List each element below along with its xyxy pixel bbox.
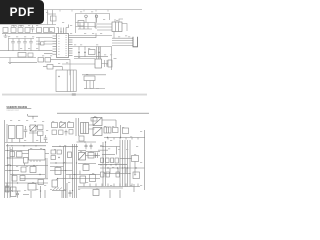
- resistor R522: [52, 130, 57, 135]
- inductor L101: [11, 25, 17, 26]
- junction dot cluster: [58, 157, 59, 158]
- bridge diagonal: [30, 125, 36, 131]
- capacitor C102: [11, 39, 15, 51]
- shield box main block: [56, 70, 76, 92]
- wire row y165.5: [5, 165, 48, 167]
- resistor R505: [113, 128, 119, 133]
- wire R514 to R515 vertical: [134, 162, 136, 176]
- wire center row y146.3: [52, 145, 78, 147]
- PC502 diagonal: [93, 128, 102, 136]
- switching transformer T502: [81, 123, 89, 134]
- wire rail y154.4: [102, 153, 115, 155]
- capacitor C511: [6, 183, 9, 191]
- wire AC input top: [6, 124, 8, 142]
- value labels top schematic: [8, 12, 130, 75]
- transistor Q505: [93, 190, 99, 196]
- wire left border: [4, 120, 6, 198]
- resistor R103: [18, 28, 23, 33]
- junction dot C110: [98, 51, 100, 53]
- capacitor C106 polarized: [85, 15, 88, 18]
- resistor R521: [6, 186, 10, 192]
- wire center vertical pair: [64, 146, 66, 198]
- PDF badge overlay: [0, 0, 44, 24]
- resistor R525: [106, 172, 110, 177]
- wire left vertical bus: [7, 144, 9, 198]
- junction dots on y168: [107, 167, 108, 168]
- capacitor C108: [78, 47, 80, 58]
- ground hatch left: [53, 188, 62, 191]
- transistor Q504: [80, 176, 86, 183]
- resistor R111: [47, 65, 53, 70]
- diode D503: [68, 152, 72, 158]
- line filter LF501: [9, 126, 16, 139]
- value labels bottom schematic: [8, 116, 142, 191]
- diode D506: [17, 152, 23, 158]
- resistor R513: [115, 158, 119, 163]
- resistor R104: [25, 28, 30, 33]
- resistor R110: [45, 58, 51, 63]
- small part near title: [91, 118, 97, 122]
- wire lower mid bus: [74, 56, 108, 58]
- transformer T501: [17, 126, 24, 139]
- resistor R503: [52, 123, 58, 128]
- node label 21: [48, 13, 57, 15]
- wire left L-branch: [10, 58, 37, 63]
- wire lower-right row: [74, 58, 95, 60]
- small parts right: [96, 153, 98, 159]
- wire rows center y163-170: [50, 163, 73, 171]
- capacitor C512: [85, 144, 88, 150]
- junction dot center row: [59, 146, 60, 147]
- resistor R107: [50, 28, 55, 33]
- wire vertical Q501 down: [23, 163, 25, 166]
- wire lower row y145.8: [6, 145, 46, 147]
- resistor R520: [79, 136, 84, 141]
- connector CN501: [11, 187, 17, 197]
- tick marks on bus: [108, 138, 138, 140]
- wire R111 row: [43, 67, 63, 70]
- wire right row y173.5: [104, 173, 130, 175]
- wire bottom of input stage: [5, 141, 48, 143]
- wire U101 top feed: [57, 25, 69, 28]
- wire bus down from U102: [113, 32, 115, 39]
- capacitor C501: [24, 126, 28, 138]
- wire long mid bus: [73, 47, 112, 59]
- capacitor C502: [44, 135, 48, 142]
- junction dot C108: [78, 51, 80, 53]
- wire right section verticals: [103, 142, 106, 186]
- inductor L102: [18, 25, 24, 26]
- wire stems of C106 C107: [86, 18, 97, 23]
- transistor Q502: [30, 167, 36, 173]
- comb ticks on bottom bus: [84, 184, 138, 187]
- IC U101 main microcontroller: [57, 34, 69, 58]
- junction dots bottom schematic: [7, 141, 131, 191]
- wire left row lower bus: [2, 33, 57, 35]
- wire vertical drop from top bus: [47, 10, 49, 25]
- wire long mid-right bus: [104, 137, 145, 139]
- junction dot C109: [84, 51, 86, 53]
- resistor R508: [12, 176, 17, 182]
- junction dots left bus: [9, 170, 10, 171]
- wire verticals above U101: [59, 28, 67, 34]
- wire below crystal: [0, 57, 36, 59]
- wire row y142: [77, 141, 97, 143]
- resistor R519: [51, 156, 56, 160]
- wire center vertical trio: [73, 144, 77, 198]
- wire to right of R110: [51, 60, 71, 75]
- resistor R516: [21, 167, 26, 172]
- wire into IC block: [89, 125, 95, 129]
- diode D511: [38, 180, 44, 185]
- wire right of U102: [122, 24, 127, 32]
- wire upper bus y64: [62, 63, 95, 65]
- diode D502: [60, 123, 66, 128]
- resistor R502: [38, 131, 44, 136]
- wire right row y168: [100, 167, 145, 169]
- diode D507: [28, 184, 36, 191]
- capacitor C107 polarized: [95, 15, 98, 18]
- wire vertical pair mid: [46, 158, 48, 178]
- junction dot y174: [39, 174, 40, 175]
- wire vertical x41: [40, 186, 42, 198]
- ground stub: [8, 62, 12, 63]
- resistor R108: [89, 50, 96, 55]
- capacitor C103: [17, 39, 21, 51]
- top bus junction ticks: [60, 10, 108, 12]
- wire long row y178: [58, 178, 100, 180]
- page background: [0, 0, 149, 198]
- wire drop x120: [120, 125, 122, 137]
- transistor Q507: [83, 165, 89, 171]
- resistor R112: [84, 76, 95, 81]
- wire U103 top pins: [97, 47, 101, 60]
- wire right row y158.5: [120, 158, 132, 160]
- wire left vertical bus: [8, 38, 10, 51]
- wire rail y164.7: [98, 164, 127, 166]
- wire row y150: [5, 150, 29, 152]
- resistor R517: [51, 150, 56, 154]
- diode D504: [52, 180, 58, 187]
- capacitor C513: [90, 144, 93, 150]
- PDF badge label: [0, 0, 44, 24]
- resistor network RN501: [104, 127, 111, 133]
- resistor R507: [10, 152, 15, 157]
- wire row y191: [5, 190, 21, 192]
- transistor Q506: [88, 153, 94, 159]
- resistor R106: [44, 28, 49, 33]
- U504 inner pins: [31, 160, 40, 162]
- wire cap row top: [9, 38, 35, 40]
- U102 internal dividers: [115, 22, 118, 32]
- wire row y153 to IC: [22, 153, 49, 155]
- capacitor C505: [69, 190, 72, 197]
- wire long bottom bus: [78, 187, 140, 189]
- capacitor C104: [23, 39, 27, 51]
- wire right bus B from U101 pin: [73, 33, 97, 38]
- junction dot y165: [10, 165, 11, 166]
- wire drops below R112: [87, 81, 94, 89]
- wire bottom row: [82, 74, 106, 76]
- wire bottom row y190.5: [52, 190, 66, 192]
- resistor R524: [101, 172, 105, 177]
- winding columns inside block: [67, 70, 73, 92]
- T502 core bars: [83, 123, 86, 134]
- power block enclosure: [76, 14, 110, 34]
- capacitor C105: [29, 39, 33, 51]
- title underline: [7, 107, 32, 110]
- capacitor C110: [98, 47, 100, 58]
- wire left verticals extra: [10, 147, 13, 198]
- junction dot in block: [58, 76, 59, 77]
- PC501 diagonal: [93, 118, 102, 126]
- wire feed rows into U101: [36, 37, 53, 53]
- fuse F501 stub: [28, 114, 39, 119]
- resistor R101: [51, 16, 57, 21]
- wire bottom right verticals: [110, 184, 134, 198]
- capacitor C514: [65, 130, 68, 136]
- junction dots row 145.8: [11, 145, 12, 146]
- junction dot G1 out: [38, 43, 39, 44]
- wire stubs below input boxes: [12, 131, 40, 142]
- transistor Q101: [78, 21, 84, 27]
- resistor R100: [3, 28, 8, 33]
- transistor Q503: [55, 168, 61, 175]
- wire row y174: [10, 174, 45, 176]
- resistor R102: [11, 28, 16, 33]
- pin stubs U101 right: [69, 36, 73, 56]
- pin number row bottom of top schematic: [84, 88, 105, 90]
- junction dots on bus: [107, 137, 108, 138]
- diode D508: [69, 130, 73, 135]
- wire rows right of U502: [86, 152, 101, 156]
- resistor R509: [20, 176, 25, 181]
- resistor R526: [116, 172, 120, 177]
- page number mark: [72, 93, 76, 95]
- wire mesh verticals: [80, 14, 96, 30]
- IC U502 PWM controller: [79, 153, 86, 161]
- wire ground bus: [0, 50, 53, 52]
- wire row y170: [5, 170, 19, 172]
- wire left row upper bus: [0, 24, 56, 26]
- wire inside power block: [76, 23, 96, 29]
- capacitor C109: [84, 47, 86, 58]
- wire right vertical extension: [111, 58, 113, 70]
- wire top right feed: [102, 120, 116, 127]
- wire drops from y174.5: [70, 171, 80, 179]
- IC U504 error amp: [29, 150, 46, 161]
- diode block D101: [108, 60, 112, 67]
- IC U102 interface: [112, 22, 122, 32]
- diode D510: [111, 158, 114, 163]
- resistor R515: [133, 172, 140, 179]
- resistor R105: [37, 28, 42, 33]
- wire row y178.8: [20, 178, 48, 180]
- wire bottom stubs: [23, 190, 45, 198]
- wire bottom center verticals: [62, 183, 67, 198]
- crystal X101: [18, 53, 26, 58]
- junction dot y158: [7, 157, 8, 158]
- wire mesh row: [76, 27, 97, 30]
- wire right border drop: [144, 130, 146, 190]
- wire power block lower: [84, 26, 92, 29]
- resistor R512: [90, 175, 96, 182]
- U101 inner pin number marks: [58, 36, 67, 56]
- connector CN101 ribbon wires: [112, 38, 133, 45]
- resonator X102: [28, 53, 33, 57]
- capacitor C101: [31, 25, 35, 33]
- wire row y163.5: [78, 163, 96, 165]
- bridge rectifier D501: [30, 125, 36, 131]
- diode D505: [101, 158, 104, 163]
- resistor R504: [68, 123, 74, 128]
- pin stubs U101 left: [53, 36, 57, 54]
- resistor R506: [123, 128, 129, 134]
- capacitor C504: [16, 191, 19, 198]
- resistor R501: [38, 125, 44, 130]
- diode D509: [106, 158, 110, 163]
- wire small 4 label stub: [114, 58, 117, 60]
- wire bottom rail: [84, 88, 102, 90]
- separator band: [2, 94, 147, 96]
- wire top border of figure: [57, 112, 149, 114]
- wire top supply bus: [2, 9, 142, 11]
- wire row y183: [5, 182, 48, 184]
- transistor Q501: [24, 158, 29, 164]
- wire rect row bus: [29, 127, 38, 134]
- IC block PC501: [93, 118, 102, 126]
- wire row y158: [8, 157, 24, 159]
- resistor R109: [38, 58, 44, 63]
- wire y174.5 center: [66, 174, 100, 176]
- junction dot r1: [55, 162, 56, 163]
- varistor RV501: [60, 123, 66, 128]
- wire right bus A from U101 pin: [73, 35, 113, 37]
- wire row y150 left: [78, 149, 86, 151]
- logic gate G1: [41, 42, 45, 45]
- IC U103: [95, 59, 102, 68]
- wire verticals mid top: [76, 118, 79, 136]
- wire vertical corridor: [120, 140, 130, 187]
- resistor R514: [132, 156, 139, 162]
- ground symbol left: [4, 34, 8, 38]
- capacitor C507: [110, 168, 126, 174]
- pin stubs U102 left: [97, 24, 112, 30]
- wire right of U103: [102, 60, 109, 67]
- svg-text:POWER SUPPLY CIRCUIT: POWER SUPPLY CIRCUIT: [7, 110, 20, 112]
- wire U102 top stub: [115, 19, 123, 22]
- resistor R518: [57, 150, 62, 154]
- connector CN101 shell: [133, 37, 138, 47]
- junction dots rail y164.7: [100, 164, 101, 165]
- IC block PC502: [93, 128, 102, 136]
- U502 diagonal: [79, 153, 86, 161]
- wire vertical drop C: [52, 10, 54, 25]
- resistor R523: [59, 130, 64, 135]
- wire right top row: [98, 147, 120, 155]
